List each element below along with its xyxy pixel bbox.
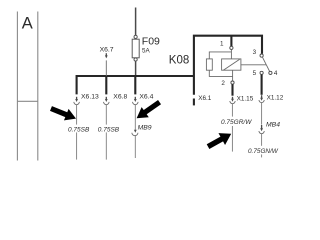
wire fuse to bus <box>135 61 137 76</box>
wire pin5 down <box>261 75 263 95</box>
svg-text:2: 2 <box>221 80 225 87</box>
wire X6.8 tail <box>105 105 107 125</box>
svg-text:5A: 5A <box>142 48 151 55</box>
svg-text:K08: K08 <box>169 55 189 67</box>
svg-text:X6.7: X6.7 <box>100 47 114 54</box>
connector X1.12 <box>259 95 264 102</box>
arrow pointer 3 <box>133 97 163 123</box>
wire coil bottom to pin2 <box>209 70 232 81</box>
node A frame left rail <box>16 12 18 161</box>
wire X6.4 to MB9 <box>134 105 136 131</box>
svg-text:X6.13: X6.13 <box>81 93 99 100</box>
relay K08 pin 3 <box>260 54 263 57</box>
wire pin2 down <box>231 84 233 95</box>
svg-text:X6.8: X6.8 <box>113 93 127 100</box>
relay K08 pin 2 <box>231 81 234 84</box>
wire top bus <box>194 36 262 95</box>
wire MB4 tail <box>261 134 263 146</box>
relay armature link <box>241 64 266 66</box>
wire main bus <box>77 76 194 94</box>
fuse F09 top terminal <box>134 35 137 38</box>
wire relay pin1 drop <box>230 36 232 46</box>
connector X6.1 <box>193 99 195 106</box>
svg-text:MB4: MB4 <box>266 122 280 129</box>
svg-text:A: A <box>22 15 33 33</box>
arrow pointer 1 <box>49 103 79 125</box>
connector X6.13 <box>74 97 80 105</box>
fuse F09 bottom terminal <box>134 58 137 61</box>
connector X6.8 <box>104 77 110 105</box>
connector X1.15 <box>230 97 235 104</box>
relay K08 pin 4 <box>269 71 272 74</box>
connector X6.7 <box>105 53 108 76</box>
svg-text:X6.1: X6.1 <box>198 95 212 102</box>
svg-text:X6.4: X6.4 <box>139 93 153 100</box>
wire MB9 tail <box>134 136 136 158</box>
svg-text:0.75GR/W: 0.75GR/W <box>221 119 252 126</box>
relay K08 pin 1 <box>230 46 233 49</box>
svg-text:4: 4 <box>274 70 278 77</box>
svg-text:F09: F09 <box>142 36 160 48</box>
svg-text:0.75SB: 0.75SB <box>98 126 120 133</box>
svg-text:X1.12: X1.12 <box>267 95 284 102</box>
connector X6.4 <box>133 77 139 105</box>
wire X6.13 tail <box>76 105 78 125</box>
svg-text:3: 3 <box>253 49 257 56</box>
splice MB9 <box>132 130 138 136</box>
wire X1.12 to MB4 <box>261 103 263 125</box>
svg-text:5: 5 <box>253 70 257 77</box>
relay K08 pin 5 <box>260 71 263 74</box>
svg-text:X1.15: X1.15 <box>237 95 254 102</box>
arrow pointer 2 <box>205 128 235 153</box>
fuse F09 body <box>132 39 139 58</box>
resistor in relay <box>206 59 212 70</box>
wire X1.15 tail <box>231 104 233 117</box>
relay coil box with diagonal <box>222 59 241 70</box>
wire pin1 to coil top <box>209 50 231 59</box>
svg-text:1: 1 <box>220 40 224 47</box>
node A frame rung <box>17 100 37 102</box>
wire supply feed top <box>135 8 137 36</box>
node A frame right rail <box>37 12 39 161</box>
svg-text:0.75GN/W: 0.75GN/W <box>248 148 279 155</box>
relay switch blade <box>262 57 269 72</box>
splice MB4 <box>259 125 264 134</box>
svg-text:MB9: MB9 <box>138 124 152 131</box>
svg-text:0.75SB: 0.75SB <box>68 126 90 133</box>
